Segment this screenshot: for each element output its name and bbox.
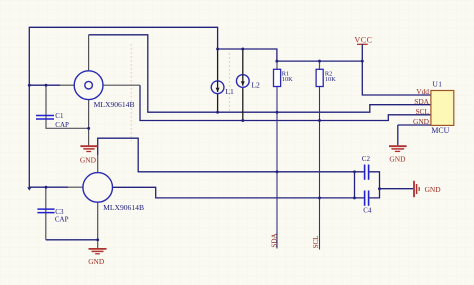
svg-text:Vdd: Vdd [416,87,429,96]
svg-text:10K: 10K [282,76,293,83]
svg-text:U1: U1 [433,79,443,88]
svg-text:GND: GND [80,156,97,165]
svg-text:GND: GND [88,257,105,266]
svg-text:C3: C3 [55,208,64,216]
svg-text:C2: C2 [362,155,371,163]
svg-text:GND: GND [413,117,430,126]
svg-text:MLX90614B: MLX90614B [94,100,135,109]
svg-text:GND: GND [425,185,442,194]
svg-text:SCL: SCL [312,235,320,248]
svg-text:GND: GND [389,155,406,164]
svg-text:CAP: CAP [55,121,69,129]
svg-text:SCL: SCL [415,107,429,116]
svg-text:C1: C1 [55,112,64,120]
svg-text:VCC: VCC [354,35,372,44]
svg-text:MLX90614B: MLX90614B [103,203,144,212]
svg-text:C4: C4 [363,207,372,215]
svg-text:L2: L2 [251,81,260,90]
svg-text:10K: 10K [325,76,336,83]
svg-text:CAP: CAP [55,216,69,224]
svg-text:SDA: SDA [270,233,278,248]
svg-text:SDA: SDA [414,97,429,106]
svg-text:L1: L1 [225,87,234,96]
svg-text:MCU: MCU [431,126,449,135]
